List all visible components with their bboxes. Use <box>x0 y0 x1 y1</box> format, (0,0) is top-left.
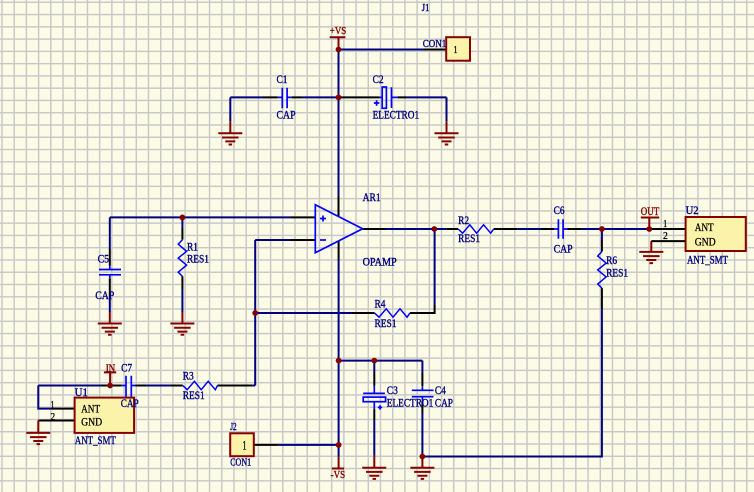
wire down to C5 <box>109 217 111 249</box>
ground under U1 pin2 <box>26 421 50 445</box>
pin left of resistor R4 <box>352 312 375 314</box>
pin left of resistor R2 <box>446 228 458 230</box>
pin 1 of U1 <box>51 408 75 410</box>
ground under C3 <box>362 456 386 479</box>
resistor R1 <box>178 240 186 277</box>
capacitor C4 <box>412 386 434 401</box>
pin output of op-amp <box>363 228 386 230</box>
svg-text:CAP: CAP <box>277 109 296 121</box>
power port OUT <box>641 218 659 230</box>
wire C3 bottom to ground <box>373 420 375 456</box>
ground under C4 R6 <box>410 457 434 479</box>
junction IN C7 <box>107 383 113 389</box>
svg-text:C5: C5 <box>98 254 110 266</box>
pins of capacitor C1 <box>263 96 302 98</box>
pin 1 of J1 <box>424 49 446 51</box>
svg-text:RES1: RES1 <box>458 233 480 245</box>
svg-text:1: 1 <box>51 400 55 411</box>
wire junction to C3 <box>373 361 375 372</box>
svg-text:OPAMP: OPAMP <box>363 256 397 268</box>
junction OUT U2 pin1 <box>646 226 652 232</box>
svg-text:C3: C3 <box>387 385 398 397</box>
pin bottom of capacitor C3 <box>373 409 375 420</box>
wire IN left down to U1 pin1 <box>38 386 51 409</box>
svg-text:ANT_SMT: ANT_SMT <box>687 254 728 266</box>
wire C6 to OUT junction <box>581 228 649 230</box>
pin - input of op-amp <box>291 239 315 241</box>
junction C1 C2 rail <box>336 95 342 101</box>
svg-text:CAP: CAP <box>435 398 453 410</box>
wire J2 to -VS junction <box>279 444 339 446</box>
ground under R1 <box>170 312 194 335</box>
resistor R3 <box>183 381 218 389</box>
wire junction to R4 left <box>255 312 352 314</box>
wire C2 right down to ground <box>446 97 448 121</box>
pin right of resistor R3 <box>218 385 253 387</box>
wire from +VS junction to J1 <box>339 49 425 51</box>
pin bottom of capacitor C5 <box>109 278 111 296</box>
wire output to R2 <box>386 228 446 230</box>
svg-text:C2: C2 <box>373 74 384 86</box>
op-amp AR1 <box>315 205 362 253</box>
svg-text:1: 1 <box>663 219 667 230</box>
wire C4 bottom to ground junction <box>421 413 423 457</box>
svg-text:2: 2 <box>50 412 55 423</box>
svg-text:1: 1 <box>454 44 458 56</box>
resistor R4 <box>375 309 410 317</box>
pin bottom of capacitor C4 <box>421 401 423 413</box>
svg-text:C7: C7 <box>121 362 132 374</box>
power port -VS <box>332 457 344 469</box>
svg-text:ANT: ANT <box>695 222 714 234</box>
connector J2 <box>230 433 254 456</box>
svg-text:RES1: RES1 <box>183 390 205 402</box>
junction R6 tap <box>599 226 605 232</box>
antenna U1 <box>75 398 135 433</box>
svg-text:+VS: +VS <box>330 26 347 37</box>
pin + input of op-amp <box>291 216 315 218</box>
junction C3 top <box>371 358 377 364</box>
power port IN <box>104 372 116 385</box>
svg-text:GND: GND <box>81 417 102 429</box>
svg-text:ELECTRO1: ELECTRO1 <box>373 109 420 121</box>
capacitor C5 <box>99 266 121 279</box>
junction R1 top <box>180 215 186 221</box>
junction output R2 feedback <box>431 226 437 232</box>
svg-text:RES1: RES1 <box>375 318 397 330</box>
wire C3 C4 top net <box>339 360 423 362</box>
svg-text:1: 1 <box>242 438 246 452</box>
wire +VS to J1 pin net <box>38 50 685 457</box>
svg-text:J1: J1 <box>422 3 430 14</box>
pin top of capacitor C5 <box>109 249 111 266</box>
pin bottom of resistor R1 <box>181 276 183 289</box>
capacitor C7 <box>122 376 136 397</box>
wire R6 bottom down and left to ground junction <box>422 309 602 456</box>
pin top of capacitor C3 <box>373 372 375 386</box>
wire R2 to C6 <box>518 228 541 230</box>
wire feedback vertical net <box>254 240 256 386</box>
pins of capacitor C2 <box>341 96 406 98</box>
wire main +V vertical rail <box>338 50 340 197</box>
power port +VS <box>330 37 346 49</box>
svg-text:RES1: RES1 <box>187 254 209 266</box>
svg-text:GND: GND <box>695 236 716 248</box>
pin V+ of op-amp AR1 <box>338 196 340 216</box>
svg-text:C4: C4 <box>435 385 446 397</box>
svg-text:ANT: ANT <box>81 404 100 416</box>
ground under C2 <box>435 121 459 144</box>
svg-text:R1: R1 <box>187 241 198 253</box>
junction C4 R6 ground <box>420 454 426 460</box>
svg-text:R6: R6 <box>606 255 617 267</box>
svg-text:2: 2 <box>663 231 668 242</box>
resistor R2 <box>458 225 494 233</box>
pin 1 of U2 <box>649 228 685 230</box>
pin 2 of U2 <box>651 240 685 242</box>
resistor R6 <box>598 252 606 289</box>
svg-text:-VS: -VS <box>331 470 346 481</box>
capacitor C3 electrolytic <box>363 386 385 410</box>
pin left of resistor R3 <box>171 385 183 387</box>
pin 2 of U1 <box>38 420 74 422</box>
connector J1 <box>446 37 470 61</box>
pin right of resistor R2 <box>494 228 518 230</box>
pins of capacitor C6 <box>541 228 581 230</box>
ground under U2 pin2 <box>639 241 663 263</box>
pin bottom of resistor R6 <box>601 288 603 309</box>
svg-text:ANT_SMT: ANT_SMT <box>75 435 116 447</box>
wire -V vertical rail <box>338 260 340 457</box>
wire op-amp + input net <box>110 216 291 218</box>
pin right of resistor R4 <box>410 305 435 313</box>
svg-text:R2: R2 <box>458 215 469 227</box>
junction -V rail C3 C4 net <box>336 358 342 364</box>
wire IN net horizontal <box>38 385 255 387</box>
pin top of capacitor C4 <box>421 373 423 386</box>
capacitor C2 electrolytic <box>374 87 398 108</box>
svg-text:J2: J2 <box>230 422 237 433</box>
pin 1 of J2 <box>254 444 279 446</box>
capacitor C1 <box>278 88 292 108</box>
wire junction to R1 <box>181 217 183 228</box>
svg-text:RES1: RES1 <box>606 268 628 280</box>
wire C1-C2 horizontal net <box>230 96 446 98</box>
wire R1 bottom to ground <box>181 289 183 312</box>
svg-text:CON1: CON1 <box>230 458 251 469</box>
wire C5 bottom to ground <box>109 296 111 312</box>
pin top of resistor R6 <box>601 240 603 252</box>
svg-text:CAP: CAP <box>121 398 139 410</box>
ground under C5 <box>98 312 122 335</box>
svg-text:R3: R3 <box>183 371 194 383</box>
capacitor C6 <box>554 219 568 238</box>
wire op-amp - input net <box>255 239 291 241</box>
svg-text:C1: C1 <box>277 74 288 86</box>
svg-text:CAP: CAP <box>554 244 573 256</box>
svg-text:R4: R4 <box>375 298 386 310</box>
wire corner down to C4 <box>421 361 423 373</box>
junction J2 -VS <box>336 442 342 448</box>
wire C1 left down to ground <box>229 97 231 121</box>
junction +VS J1 <box>336 47 342 53</box>
wire junction down to R6 <box>601 229 603 240</box>
pin V- of op-amp <box>338 241 340 260</box>
pins of capacitor C7 <box>101 385 146 387</box>
svg-text:AR1: AR1 <box>363 192 381 204</box>
junction R4 left <box>252 310 258 316</box>
svg-text:CON1: CON1 <box>423 39 447 50</box>
svg-text:OUT: OUT <box>641 204 660 218</box>
wire R4 right up to output junction <box>434 229 436 305</box>
svg-text:ELECTRO1: ELECTRO1 <box>387 398 434 410</box>
ground under C1 <box>218 121 242 144</box>
svg-text:U2: U2 <box>686 205 699 217</box>
antenna U2 <box>686 217 746 251</box>
svg-text:IN: IN <box>106 362 116 374</box>
svg-text:CAP: CAP <box>95 290 114 302</box>
svg-text:C6: C6 <box>554 205 565 217</box>
pin top of resistor R1 <box>181 228 183 240</box>
svg-text:U1: U1 <box>75 387 88 399</box>
